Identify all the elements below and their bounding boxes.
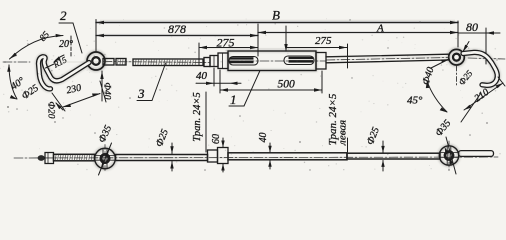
label F35 bottom right [433,118,453,139]
bottom eye boss left [95,145,116,173]
turnbuckle right collar [316,53,326,70]
svg-text:2: 2 [60,8,67,23]
dimension 210 [461,77,505,122]
svg-text:500: 500 [278,79,296,91]
turnbuckle nut [210,56,218,67]
right hook [463,52,497,85]
svg-text:Ф20: Ф20 [46,101,56,118]
label F35 bottom left [97,124,115,145]
arc 20deg [54,55,64,62]
extension line x347 [347,44,349,68]
dimension 878 line [96,34,258,37]
bottom threaded bar [228,153,347,160]
dimension 230 [52,81,106,111]
callout 1 [229,71,260,108]
callout 3 [137,64,166,102]
bottom hook tip side [38,153,54,164]
turnbuckle body [228,51,316,71]
svg-text:А: А [376,23,384,35]
extension line left eye [95,20,97,53]
bottom rod left [54,154,95,161]
svg-text:275: 275 [315,35,332,47]
svg-text:45°: 45° [407,95,423,107]
extension line right eye [457,21,459,47]
turnbuckle center line with down arrow [284,26,287,52]
extension line x486 [485,28,487,64]
dimension 80 [458,31,500,34]
svg-text:40: 40 [196,70,208,82]
bottom centerline [14,157,498,158]
left rod thread hatch [118,60,196,66]
label 85 [38,30,52,44]
dimension A line [258,31,458,34]
label F25 bottom left [154,128,171,149]
svg-text:левая: левая [337,120,349,146]
callout 2 [59,8,82,53]
label F20 [46,101,56,118]
arc 85 [10,34,64,59]
label 40deg [9,75,27,92]
thread label right extension [347,138,349,152]
dimension B line [96,21,458,24]
main centerline top view [3,58,505,63]
thread label left extension [205,92,207,152]
bottom rod mid [116,155,208,161]
label 60 [211,134,222,144]
right slot [284,56,314,65]
dimension 500 [220,70,322,93]
label 40 bottom [258,133,269,143]
arc 40deg [7,64,17,100]
arc 45deg [426,81,448,113]
leader F40 right [431,59,449,68]
left rod segments [103,58,210,67]
leader F25 right hook [463,42,469,53]
svg-text:80: 80 [466,20,478,34]
left eye ring [87,52,105,70]
scan bleed layer [39,49,498,168]
F35 leader bottom left [99,143,112,175]
bottom nut [208,150,218,162]
bottom rod left thread hatch [55,155,92,160]
label F25 bottom right [365,126,382,147]
turnbuckle left collar [218,53,228,69]
right rod [326,54,449,63]
svg-text:60: 60 [211,134,222,144]
dimension 40 thread [196,68,241,86]
dimension F25 bottom left [170,143,173,171]
left hook shank [39,57,90,89]
thread label left vertical [192,92,203,141]
bottom collar [218,148,229,164]
label F25 right hook [456,68,474,87]
bottom right stub [459,151,494,157]
left slot [229,57,258,66]
F35 leader bottom right [445,137,456,174]
dashed vertical 20deg [70,36,72,58]
label R15 [51,54,69,70]
leader R15 [46,64,55,68]
label F40 left [102,82,112,99]
extension line x258 [257,24,259,56]
dirt specks [4,19,497,171]
label 210 [473,87,492,105]
svg-text:3: 3 [137,86,145,101]
dimension 275 left [199,46,258,49]
F20 tip arrow [55,102,63,110]
right eye lower centerline [456,66,458,86]
dimension 40 bottom [268,143,271,169]
dimension F40 left eye [100,71,103,101]
right eye ring [449,49,465,65]
svg-text:Ф40: Ф40 [102,82,112,99]
label F40 right [420,66,436,87]
bottom eye boss right [439,141,459,171]
dimension 60 [221,138,224,172]
extension line x199 [198,43,200,65]
bottom rod right of bar [347,153,440,159]
thread label right vertical [327,93,339,145]
svg-text:Трап. 24×5: Трап. 24×5 [192,92,203,141]
svg-text:40: 40 [258,133,269,143]
dimension 275 right [286,46,347,49]
svg-text:1: 1 [230,92,237,107]
scan noise [0,18,501,170]
dimension F25 bottom right [381,141,384,171]
svg-text:275: 275 [217,36,235,50]
label F25 left [20,83,41,102]
